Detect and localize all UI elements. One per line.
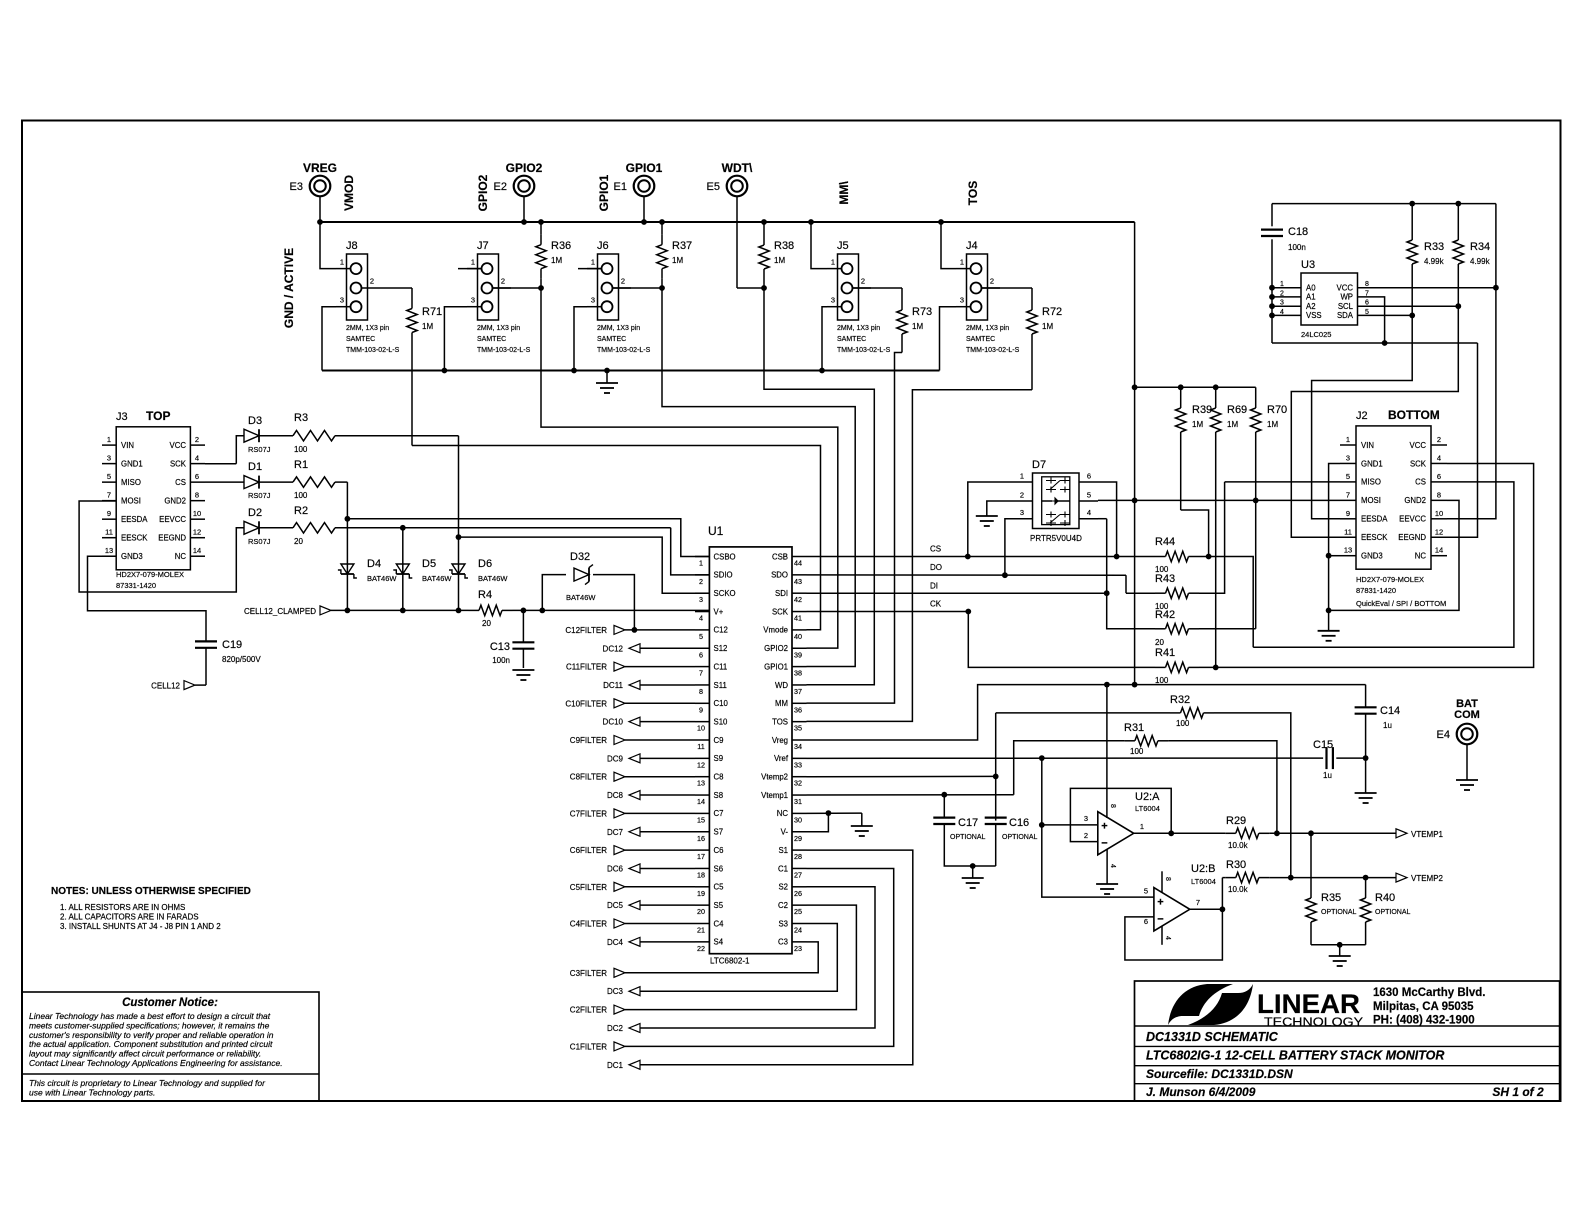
svg-text:TMM-103-02-L-S: TMM-103-02-L-S bbox=[346, 347, 400, 354]
svg-text:CELL12_CLAMPED: CELL12_CLAMPED bbox=[244, 607, 316, 616]
svg-text:VTEMP2: VTEMP2 bbox=[1411, 874, 1444, 883]
svg-text:R44: R44 bbox=[1155, 536, 1175, 548]
svg-text:C4FILTER: C4FILTER bbox=[570, 920, 607, 929]
svg-text:use with Linear Technology par: use with Linear Technology parts. bbox=[29, 1088, 155, 1098]
svg-text:HD2X7-079-MOLEX: HD2X7-079-MOLEX bbox=[1356, 575, 1424, 584]
svg-text:C1: C1 bbox=[778, 864, 788, 873]
svg-text:20: 20 bbox=[1155, 638, 1164, 647]
svg-text:11: 11 bbox=[1344, 527, 1352, 536]
svg-text:TOS: TOS bbox=[966, 181, 980, 205]
svg-text:DC2: DC2 bbox=[607, 1024, 624, 1033]
svg-text:1: 1 bbox=[831, 258, 835, 267]
svg-text:OPTIONAL: OPTIONAL bbox=[1375, 909, 1411, 916]
svg-text:C12: C12 bbox=[714, 626, 728, 635]
svg-text:C10FILTER: C10FILTER bbox=[565, 699, 607, 708]
svg-text:GND1: GND1 bbox=[1361, 459, 1383, 468]
svg-text:U2:A: U2:A bbox=[1135, 791, 1160, 803]
svg-text:R38: R38 bbox=[774, 240, 794, 252]
svg-text:NC: NC bbox=[777, 809, 789, 818]
svg-text:EEGND: EEGND bbox=[1398, 533, 1426, 542]
svg-text:19: 19 bbox=[697, 889, 705, 898]
svg-text:VSS: VSS bbox=[1306, 311, 1322, 320]
svg-text:2: 2 bbox=[621, 277, 625, 286]
svg-text:13: 13 bbox=[1344, 546, 1352, 555]
svg-text:1. ALL RESISTORS ARE IN OHMS: 1. ALL RESISTORS ARE IN OHMS bbox=[60, 903, 185, 912]
svg-text:CSBO: CSBO bbox=[714, 552, 736, 561]
svg-text:Vmode: Vmode bbox=[763, 626, 788, 635]
svg-text:2: 2 bbox=[1020, 491, 1024, 500]
svg-text:4: 4 bbox=[195, 454, 199, 463]
svg-text:Vreg: Vreg bbox=[772, 736, 788, 745]
svg-text:EEVCC: EEVCC bbox=[1399, 515, 1426, 524]
svg-text:100n: 100n bbox=[492, 656, 510, 665]
svg-text:11: 11 bbox=[105, 528, 113, 537]
svg-text:C13: C13 bbox=[490, 641, 510, 653]
svg-text:6: 6 bbox=[1437, 472, 1441, 481]
svg-text:27: 27 bbox=[794, 870, 802, 879]
svg-text:C10: C10 bbox=[714, 699, 729, 708]
svg-text:Sourcefile: DC1331D.DSN: Sourcefile: DC1331D.DSN bbox=[1146, 1067, 1293, 1081]
svg-text:C6FILTER: C6FILTER bbox=[570, 846, 607, 855]
svg-text:RS07J: RS07J bbox=[248, 445, 271, 454]
svg-text:5: 5 bbox=[699, 632, 703, 641]
svg-text:SDA: SDA bbox=[1337, 311, 1354, 320]
svg-text:OPTIONAL: OPTIONAL bbox=[1321, 909, 1357, 916]
svg-text:5: 5 bbox=[107, 472, 111, 481]
svg-text:8: 8 bbox=[195, 491, 199, 500]
svg-text:S7: S7 bbox=[714, 828, 724, 837]
svg-text:EESCK: EESCK bbox=[121, 534, 148, 543]
svg-text:38: 38 bbox=[794, 669, 802, 678]
svg-text:S4: S4 bbox=[714, 938, 724, 947]
svg-text:2MM, 1X3 pin: 2MM, 1X3 pin bbox=[477, 325, 520, 332]
svg-text:NOTES: UNLESS OTHERWISE SPECI: NOTES: UNLESS OTHERWISE SPECIFIED bbox=[51, 886, 251, 897]
svg-text:SAMTEC: SAMTEC bbox=[477, 336, 506, 343]
svg-text:J4: J4 bbox=[966, 240, 978, 252]
svg-text:4: 4 bbox=[1280, 309, 1284, 316]
svg-text:S11: S11 bbox=[714, 681, 727, 690]
svg-text:3. INSTALL SHUNTS AT J4 - J8: 3. INSTALL SHUNTS AT J4 - J8 PIN 1 AND 2 bbox=[60, 922, 221, 931]
svg-text:−: − bbox=[1157, 914, 1163, 926]
svg-text:R33: R33 bbox=[1424, 241, 1444, 253]
svg-text:R32: R32 bbox=[1170, 694, 1190, 706]
svg-text:C18: C18 bbox=[1288, 226, 1308, 238]
svg-text:D2: D2 bbox=[248, 507, 262, 519]
svg-text:R35: R35 bbox=[1321, 892, 1341, 904]
svg-text:PH: (408) 432-1900: PH: (408) 432-1900 bbox=[1373, 1015, 1475, 1027]
svg-text:4.99k: 4.99k bbox=[1470, 257, 1491, 266]
svg-text:5: 5 bbox=[1346, 472, 1350, 481]
svg-text:E2: E2 bbox=[494, 181, 507, 193]
svg-text:C2: C2 bbox=[778, 901, 788, 910]
svg-text:R37: R37 bbox=[672, 240, 692, 252]
svg-text:4: 4 bbox=[699, 614, 703, 623]
svg-text:CS: CS bbox=[175, 478, 186, 487]
svg-text:TMM-103-02-L-S: TMM-103-02-L-S bbox=[597, 347, 651, 354]
svg-text:DC11: DC11 bbox=[603, 681, 623, 690]
svg-text:DC6: DC6 bbox=[607, 864, 624, 873]
svg-text:DC1331D SCHEMATIC: DC1331D SCHEMATIC bbox=[1146, 1030, 1279, 1044]
svg-text:D1: D1 bbox=[248, 461, 262, 473]
svg-text:2: 2 bbox=[501, 277, 505, 286]
svg-text:1M: 1M bbox=[551, 256, 562, 265]
svg-text:C12FILTER: C12FILTER bbox=[565, 626, 607, 635]
svg-text:S9: S9 bbox=[714, 754, 724, 763]
svg-text:S8: S8 bbox=[714, 791, 724, 800]
svg-text:R30: R30 bbox=[1226, 859, 1246, 871]
svg-text:D3: D3 bbox=[248, 415, 262, 427]
svg-text:TMM-103-02-L-S: TMM-103-02-L-S bbox=[966, 347, 1020, 354]
svg-text:3: 3 bbox=[831, 296, 835, 305]
svg-text:VCC: VCC bbox=[170, 441, 187, 450]
svg-text:1: 1 bbox=[1020, 472, 1024, 481]
svg-text:NC: NC bbox=[1415, 552, 1427, 561]
svg-text:DO: DO bbox=[930, 563, 942, 572]
svg-text:2: 2 bbox=[370, 277, 374, 286]
svg-text:MOSI: MOSI bbox=[121, 496, 141, 505]
svg-text:DC7: DC7 bbox=[607, 828, 624, 837]
svg-text:8: 8 bbox=[699, 687, 703, 696]
svg-text:VCC: VCC bbox=[1337, 284, 1354, 293]
svg-text:1: 1 bbox=[107, 435, 111, 444]
svg-text:TOS: TOS bbox=[772, 717, 788, 726]
svg-text:2: 2 bbox=[195, 435, 199, 444]
svg-text:WD: WD bbox=[775, 681, 788, 690]
svg-text:VREG: VREG bbox=[303, 161, 337, 175]
svg-text:S10: S10 bbox=[714, 717, 729, 726]
svg-text:3: 3 bbox=[1280, 300, 1284, 307]
svg-text:C6: C6 bbox=[714, 846, 724, 855]
svg-text:3: 3 bbox=[471, 296, 475, 305]
svg-text:D7: D7 bbox=[1032, 459, 1046, 471]
svg-text:D5: D5 bbox=[422, 558, 436, 570]
svg-text:DC5: DC5 bbox=[607, 901, 624, 910]
svg-text:SAMTEC: SAMTEC bbox=[597, 336, 626, 343]
svg-text:TECHNOLOGY: TECHNOLOGY bbox=[1264, 1017, 1363, 1029]
svg-text:1: 1 bbox=[1346, 435, 1350, 444]
svg-text:Contact Linear Technology Appl: Contact Linear Technology Applications E… bbox=[29, 1058, 283, 1068]
svg-text:9: 9 bbox=[1346, 509, 1350, 518]
svg-text:BAT46W: BAT46W bbox=[367, 574, 397, 583]
svg-text:5: 5 bbox=[1144, 887, 1148, 896]
svg-text:S3: S3 bbox=[778, 919, 788, 928]
svg-text:18: 18 bbox=[697, 870, 705, 879]
svg-text:11: 11 bbox=[697, 742, 704, 751]
svg-text:100: 100 bbox=[294, 491, 308, 500]
svg-text:R72: R72 bbox=[1042, 306, 1062, 318]
svg-text:28: 28 bbox=[794, 852, 802, 861]
svg-text:22: 22 bbox=[697, 944, 705, 953]
svg-text:29: 29 bbox=[794, 834, 802, 843]
svg-text:42: 42 bbox=[794, 595, 802, 604]
svg-text:4.99k: 4.99k bbox=[1424, 257, 1445, 266]
svg-text:16: 16 bbox=[697, 834, 705, 843]
svg-text:DC1: DC1 bbox=[607, 1061, 624, 1070]
svg-text:D4: D4 bbox=[367, 558, 381, 570]
svg-text:S2: S2 bbox=[778, 883, 788, 892]
svg-text:J7: J7 bbox=[477, 240, 489, 252]
svg-text:9: 9 bbox=[699, 705, 703, 714]
svg-text:R69: R69 bbox=[1227, 404, 1247, 416]
svg-text:EEGND: EEGND bbox=[158, 534, 186, 543]
svg-text:R2: R2 bbox=[294, 505, 308, 517]
svg-text:2: 2 bbox=[1084, 831, 1088, 840]
svg-text:32: 32 bbox=[794, 779, 802, 788]
svg-text:2: 2 bbox=[990, 277, 994, 286]
svg-text:DC8: DC8 bbox=[607, 791, 624, 800]
svg-text:3: 3 bbox=[340, 296, 344, 305]
svg-text:SDI: SDI bbox=[775, 589, 788, 598]
svg-text:2: 2 bbox=[861, 277, 865, 286]
svg-text:1u: 1u bbox=[1323, 771, 1332, 780]
svg-text:EESDA: EESDA bbox=[1361, 515, 1388, 524]
svg-text:R70: R70 bbox=[1267, 404, 1287, 416]
svg-text:R36: R36 bbox=[551, 240, 571, 252]
svg-text:20: 20 bbox=[294, 537, 303, 546]
svg-text:EESCK: EESCK bbox=[1361, 533, 1388, 542]
svg-text:R73: R73 bbox=[912, 306, 932, 318]
svg-text:MM\: MM\ bbox=[837, 181, 851, 205]
svg-text:D32: D32 bbox=[570, 551, 590, 563]
svg-text:1M: 1M bbox=[1227, 420, 1238, 429]
svg-text:VTEMP1: VTEMP1 bbox=[1411, 830, 1444, 839]
svg-text:U1: U1 bbox=[708, 524, 724, 538]
svg-text:EESDA: EESDA bbox=[121, 515, 148, 524]
svg-text:C2FILTER: C2FILTER bbox=[570, 1006, 607, 1015]
svg-text:4: 4 bbox=[1164, 936, 1171, 940]
svg-text:8: 8 bbox=[1109, 804, 1116, 808]
svg-text:14: 14 bbox=[193, 546, 201, 555]
svg-text:A1: A1 bbox=[1306, 293, 1316, 302]
svg-text:RS07J: RS07J bbox=[248, 537, 271, 546]
svg-text:MOSI: MOSI bbox=[1361, 496, 1381, 505]
svg-text:1M: 1M bbox=[912, 322, 923, 331]
svg-text:DI: DI bbox=[930, 581, 938, 590]
svg-text:QuickEval / SPI / BOTTOM: QuickEval / SPI / BOTTOM bbox=[1356, 599, 1446, 608]
svg-text:1M: 1M bbox=[672, 256, 683, 265]
svg-text:COM: COM bbox=[1454, 709, 1480, 721]
svg-text:2: 2 bbox=[1280, 290, 1284, 297]
svg-text:BAT46W: BAT46W bbox=[566, 593, 596, 602]
svg-text:R41: R41 bbox=[1155, 647, 1175, 659]
svg-text:VMOD: VMOD bbox=[342, 175, 356, 211]
svg-text:DC12: DC12 bbox=[603, 644, 624, 653]
svg-text:2MM, 1X3 pin: 2MM, 1X3 pin bbox=[837, 325, 880, 332]
svg-text:43: 43 bbox=[794, 577, 802, 586]
svg-text:1M: 1M bbox=[1267, 420, 1278, 429]
svg-text:3: 3 bbox=[591, 296, 595, 305]
svg-text:C7: C7 bbox=[714, 809, 724, 818]
svg-text:TMM-103-02-L-S: TMM-103-02-L-S bbox=[837, 347, 891, 354]
svg-text:C8: C8 bbox=[714, 773, 724, 782]
svg-text:R29: R29 bbox=[1226, 815, 1246, 827]
svg-text:U3: U3 bbox=[1301, 259, 1315, 271]
svg-text:1: 1 bbox=[471, 258, 475, 267]
svg-text:SH 1 of 2: SH 1 of 2 bbox=[1492, 1085, 1544, 1099]
svg-text:6: 6 bbox=[1144, 917, 1148, 926]
svg-text:SCK: SCK bbox=[170, 459, 187, 468]
svg-text:1: 1 bbox=[699, 559, 703, 568]
svg-text:CSB: CSB bbox=[772, 552, 788, 561]
svg-text:3: 3 bbox=[699, 595, 703, 604]
svg-text:C11: C11 bbox=[714, 662, 728, 671]
svg-text:DC9: DC9 bbox=[607, 754, 624, 763]
svg-text:24LC025: 24LC025 bbox=[1301, 330, 1331, 339]
svg-text:OPTIONAL: OPTIONAL bbox=[1002, 834, 1038, 841]
svg-text:R1: R1 bbox=[294, 459, 308, 471]
svg-text:SAMTEC: SAMTEC bbox=[837, 336, 866, 343]
svg-text:2: 2 bbox=[1437, 435, 1441, 444]
svg-text:17: 17 bbox=[697, 852, 705, 861]
svg-text:Vtemp1: Vtemp1 bbox=[761, 791, 788, 800]
svg-text:VIN: VIN bbox=[1361, 441, 1374, 450]
svg-text:GPIO1: GPIO1 bbox=[597, 174, 611, 211]
svg-text:C14: C14 bbox=[1380, 705, 1400, 717]
svg-text:10.0k: 10.0k bbox=[1228, 885, 1249, 894]
svg-text:1M: 1M bbox=[774, 256, 785, 265]
svg-text:V-: V- bbox=[781, 828, 789, 837]
svg-text:C8FILTER: C8FILTER bbox=[570, 773, 607, 782]
svg-text:R3: R3 bbox=[294, 412, 308, 424]
svg-text:GPIO2: GPIO2 bbox=[506, 161, 543, 175]
svg-text:+: + bbox=[1101, 821, 1107, 833]
svg-text:E4: E4 bbox=[1437, 729, 1450, 741]
svg-text:LINEAR: LINEAR bbox=[1257, 989, 1360, 1019]
svg-text:S12: S12 bbox=[714, 644, 728, 653]
svg-text:SCKO: SCKO bbox=[714, 589, 736, 598]
svg-text:100: 100 bbox=[1130, 747, 1144, 756]
svg-text:14: 14 bbox=[1435, 546, 1443, 555]
svg-text:C11FILTER: C11FILTER bbox=[566, 663, 607, 672]
svg-text:4: 4 bbox=[1437, 453, 1441, 462]
svg-text:SCK: SCK bbox=[772, 607, 789, 616]
svg-text:20: 20 bbox=[482, 619, 491, 628]
svg-text:100: 100 bbox=[1155, 676, 1169, 685]
svg-text:12: 12 bbox=[697, 760, 705, 769]
svg-text:15: 15 bbox=[697, 815, 705, 824]
svg-text:C3FILTER: C3FILTER bbox=[570, 969, 607, 978]
svg-text:3: 3 bbox=[960, 296, 964, 305]
svg-text:1: 1 bbox=[1280, 281, 1284, 288]
svg-text:8: 8 bbox=[1164, 877, 1171, 881]
svg-text:26: 26 bbox=[794, 889, 802, 898]
svg-text:1u: 1u bbox=[1383, 721, 1392, 730]
svg-text:GND3: GND3 bbox=[1361, 552, 1383, 561]
svg-text:7: 7 bbox=[1346, 490, 1350, 499]
svg-text:1M: 1M bbox=[1192, 420, 1203, 429]
svg-text:S5: S5 bbox=[714, 901, 724, 910]
svg-text:12: 12 bbox=[1435, 527, 1443, 536]
svg-text:7: 7 bbox=[107, 491, 111, 500]
svg-text:DC4: DC4 bbox=[607, 938, 624, 947]
svg-text:3: 3 bbox=[1020, 508, 1024, 517]
svg-text:4: 4 bbox=[1087, 508, 1091, 517]
svg-text:12: 12 bbox=[193, 528, 201, 537]
svg-text:DC10: DC10 bbox=[603, 718, 624, 727]
svg-text:R34: R34 bbox=[1470, 241, 1490, 253]
svg-text:C9: C9 bbox=[714, 736, 724, 745]
svg-text:1M: 1M bbox=[422, 322, 433, 331]
svg-text:36: 36 bbox=[794, 705, 802, 714]
svg-text:LTC6802-1: LTC6802-1 bbox=[710, 957, 750, 966]
svg-text:33: 33 bbox=[794, 760, 802, 769]
svg-text:C5FILTER: C5FILTER bbox=[570, 883, 607, 892]
svg-text:24: 24 bbox=[794, 926, 802, 935]
svg-text:10: 10 bbox=[1435, 509, 1443, 518]
svg-text:4: 4 bbox=[1109, 864, 1116, 868]
svg-text:7: 7 bbox=[699, 669, 703, 678]
svg-text:J3: J3 bbox=[116, 411, 128, 423]
svg-text:C4: C4 bbox=[714, 919, 725, 928]
svg-text:R4: R4 bbox=[478, 589, 492, 601]
svg-text:6: 6 bbox=[195, 472, 199, 481]
svg-text:1630 McCarthy Blvd.: 1630 McCarthy Blvd. bbox=[1373, 987, 1486, 999]
svg-text:6: 6 bbox=[699, 650, 703, 659]
svg-text:J. Munson 6/4/2009: J. Munson 6/4/2009 bbox=[1146, 1085, 1256, 1099]
svg-text:13: 13 bbox=[105, 546, 113, 555]
svg-text:C3: C3 bbox=[778, 938, 788, 947]
svg-text:J8: J8 bbox=[346, 240, 358, 252]
svg-text:7: 7 bbox=[1196, 898, 1200, 907]
svg-text:100: 100 bbox=[294, 445, 308, 454]
svg-text:3: 3 bbox=[1084, 814, 1088, 823]
svg-text:1: 1 bbox=[591, 258, 595, 267]
svg-text:GND1: GND1 bbox=[121, 459, 143, 468]
svg-text:EEVCC: EEVCC bbox=[159, 515, 186, 524]
svg-text:10: 10 bbox=[697, 724, 705, 733]
svg-text:100: 100 bbox=[1176, 719, 1190, 728]
svg-text:This circuit is proprietary to: This circuit is proprietary to Linear Te… bbox=[29, 1078, 266, 1088]
svg-text:SAMTEC: SAMTEC bbox=[346, 336, 375, 343]
svg-text:MISO: MISO bbox=[1361, 478, 1381, 487]
svg-text:8: 8 bbox=[1437, 490, 1441, 499]
svg-text:1M: 1M bbox=[1042, 322, 1053, 331]
svg-text:NC: NC bbox=[175, 552, 187, 561]
svg-text:BAT46W: BAT46W bbox=[478, 574, 508, 583]
svg-text:RS07J: RS07J bbox=[248, 491, 271, 500]
svg-text:E1: E1 bbox=[614, 181, 627, 193]
svg-text:CELL12: CELL12 bbox=[151, 682, 180, 691]
svg-text:WP: WP bbox=[1340, 293, 1353, 302]
svg-text:21: 21 bbox=[697, 926, 705, 935]
svg-text:SAMTEC: SAMTEC bbox=[966, 336, 995, 343]
svg-text:Milpitas, CA 95035: Milpitas, CA 95035 bbox=[1373, 1001, 1474, 1013]
svg-text:35: 35 bbox=[794, 724, 802, 733]
svg-text:GPIO1: GPIO1 bbox=[764, 662, 788, 671]
svg-text:2MM, 1X3 pin: 2MM, 1X3 pin bbox=[597, 325, 640, 332]
svg-text:C17: C17 bbox=[958, 817, 978, 829]
svg-text:SDO: SDO bbox=[771, 571, 788, 580]
svg-text:C16: C16 bbox=[1009, 817, 1029, 829]
svg-text:S1: S1 bbox=[778, 846, 788, 855]
svg-text:23: 23 bbox=[794, 944, 802, 953]
svg-text:10.0k: 10.0k bbox=[1228, 841, 1249, 850]
svg-text:3: 3 bbox=[1346, 453, 1350, 462]
svg-text:100n: 100n bbox=[1288, 243, 1306, 252]
svg-text:MISO: MISO bbox=[121, 478, 141, 487]
svg-text:44: 44 bbox=[794, 559, 802, 568]
svg-text:1: 1 bbox=[960, 258, 964, 267]
svg-text:C1FILTER: C1FILTER bbox=[570, 1042, 607, 1051]
svg-text:30: 30 bbox=[794, 815, 802, 824]
svg-text:A2: A2 bbox=[1306, 302, 1316, 311]
svg-text:E3: E3 bbox=[290, 181, 303, 193]
svg-text:J2: J2 bbox=[1356, 410, 1368, 422]
svg-text:E5: E5 bbox=[707, 181, 720, 193]
svg-text:20: 20 bbox=[697, 907, 705, 916]
svg-text:V+: V+ bbox=[714, 607, 724, 616]
svg-text:LTC6802IG-1 12-CELL BATTERY ST: LTC6802IG-1 12-CELL BATTERY STACK MONITO… bbox=[1146, 1049, 1444, 1063]
